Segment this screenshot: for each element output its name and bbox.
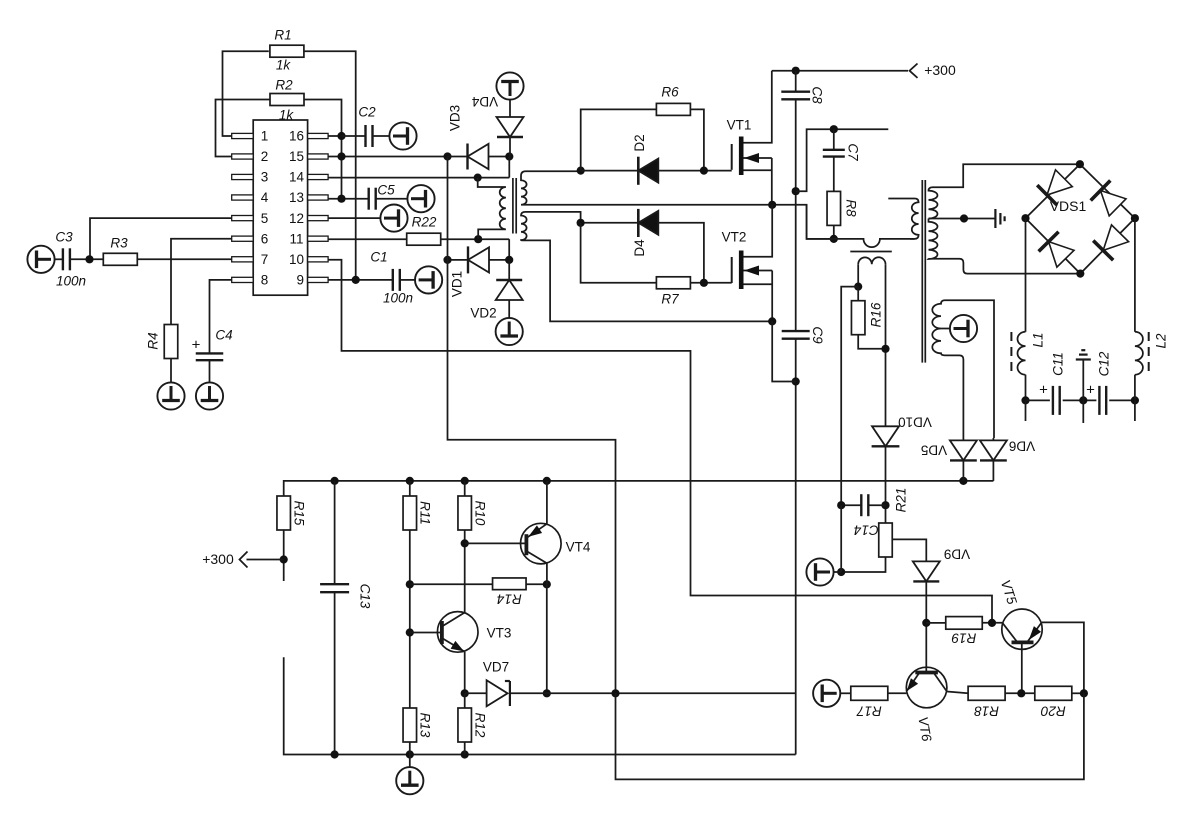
transistor VT4 emitter up — [546, 481, 548, 524]
svg-text:100n: 100n — [383, 291, 413, 306]
wire pin9 row — [328, 279, 393, 281]
wire VT6 collector to R18 — [947, 692, 968, 694]
node VT3 base junction — [406, 628, 414, 636]
wire junction down to pin14 line — [508, 157, 510, 178]
node output left — [1021, 396, 1029, 404]
diode VD9 — [913, 561, 940, 581]
svg-text:11: 11 — [289, 231, 303, 246]
wire bottom-left riser — [284, 657, 796, 754]
resistor R18 — [968, 686, 1005, 700]
node VD1 left junction — [443, 256, 451, 264]
wire junction to C2 — [342, 135, 366, 137]
wire ground to C3 — [54, 258, 63, 260]
svg-text:D2: D2 — [632, 134, 647, 151]
svg-text:C1: C1 — [370, 250, 387, 265]
transistor VT5 circle — [1002, 609, 1042, 649]
ground at R4 — [157, 382, 184, 409]
terminal +300 chevron left — [240, 552, 248, 568]
svg-text:R10: R10 — [472, 501, 487, 526]
resistor R8 — [827, 191, 841, 225]
transistor VT6 collector line — [934, 673, 947, 692]
ground at C1 — [415, 266, 442, 293]
capacitor C4 (electrolytic) — [196, 352, 224, 354]
stub output left — [1025, 400, 1027, 421]
wire T2 secondary right leg — [885, 264, 887, 427]
pin 7 stub — [232, 257, 254, 262]
wire C2 to ground — [372, 135, 389, 137]
node C8 top junction — [792, 67, 800, 75]
transistor VT1 gate line — [731, 144, 733, 170]
pin 3 stub — [232, 174, 254, 179]
diode VD7 (zener) — [487, 680, 508, 706]
transformer T3 secondary upper — [929, 164, 1080, 218]
diode VD7 zener bar — [509, 681, 511, 706]
diode VD1 cathode bar — [467, 246, 469, 273]
svg-text:VD6: VD6 — [1009, 438, 1035, 453]
wire R17 to VT6 — [888, 692, 907, 694]
ground at VD4 — [496, 72, 523, 99]
diode VD10 cathode bar — [872, 445, 900, 447]
wire VD4 to junction — [509, 137, 511, 157]
wire VD10 down — [885, 446, 887, 523]
transistor VT6 emitter line — [906, 673, 919, 692]
node C9 bottom junction — [792, 377, 800, 385]
node bridge left — [1021, 214, 1029, 222]
ground at bottom rail — [396, 767, 423, 794]
pin 11 stub — [308, 236, 329, 241]
svg-text:1k: 1k — [276, 58, 292, 73]
ground at C4 — [196, 382, 223, 409]
wire pin16 to junction — [328, 135, 341, 137]
wire C8 vertical — [795, 71, 797, 92]
wire bridge bottom-right side — [1080, 218, 1135, 273]
wire +300 block rail — [284, 481, 994, 496]
wire bridge top-right side — [1080, 164, 1135, 218]
node VT4 base junction — [461, 539, 469, 547]
svg-text:+: + — [1086, 381, 1095, 398]
node D2/R6/gate junction — [700, 167, 708, 175]
wire R18 to R20 — [1005, 692, 1035, 694]
inductor L1 core dashes — [1010, 332, 1012, 374]
wire C7 top — [833, 129, 835, 150]
diode VD3 — [468, 144, 489, 169]
transformer T3 feedback winding — [932, 300, 994, 438]
node VT2 source junction — [768, 317, 776, 325]
wire R4 to ground — [170, 359, 172, 383]
wire R7 left leg — [581, 223, 656, 283]
svg-text:R15: R15 — [291, 501, 306, 526]
node rail C13 — [331, 477, 339, 485]
wire R1 right to vertical bus x356 — [304, 51, 356, 280]
wire pin2 to R2 left — [216, 100, 271, 157]
pin 10 stub — [308, 257, 329, 262]
transformer T1 core — [512, 178, 514, 234]
svg-text:VT3: VT3 — [487, 626, 512, 641]
node bottom rail R12 — [461, 750, 469, 758]
transformer T2 core — [850, 251, 892, 253]
wire R6 right down — [691, 109, 704, 170]
wire C4 to ground — [209, 360, 211, 383]
wire pin15 column down — [448, 157, 616, 694]
transistor VT6 arrow — [907, 678, 918, 691]
wire midpoint down to R8 bottom — [807, 205, 834, 239]
ground at C5 — [407, 185, 434, 212]
resistor R19 — [946, 617, 983, 630]
wire pin14 row — [328, 177, 509, 179]
wire C8 down through midpoint to C9 — [795, 99, 797, 330]
svg-text:1k: 1k — [279, 108, 295, 123]
capacitor C1 — [392, 269, 394, 291]
svg-text:L1: L1 — [1031, 332, 1046, 347]
transistor VT2 arrow — [744, 266, 759, 276]
node R18/R20/VT5e junction — [1017, 689, 1025, 697]
pin 14 stub — [308, 174, 329, 179]
wire +300 stub — [247, 559, 284, 561]
svg-text:C9: C9 — [810, 326, 825, 344]
node rail R11 — [406, 477, 414, 485]
transistor VT1 channel bar — [739, 137, 744, 176]
transistor VT1 body arrow line — [744, 157, 772, 159]
svg-text:R17: R17 — [856, 703, 881, 718]
wire VD6 top — [992, 438, 994, 440]
node snubber top junction — [830, 125, 838, 133]
wire C14 right — [868, 504, 885, 506]
wire L2 to output rail — [1134, 375, 1136, 401]
wire R11 top — [409, 481, 411, 496]
transistor VT5 emitter diagonal — [1027, 622, 1042, 642]
transformer T3 secondary lower — [929, 219, 1081, 274]
wire pin5 left — [90, 218, 232, 259]
svg-text:R13: R13 — [417, 713, 432, 738]
svg-text:VD1: VD1 — [450, 271, 465, 297]
node C14 left junction — [837, 501, 845, 509]
capacitor C12 — [1098, 386, 1100, 415]
ground at VD2 — [496, 318, 523, 345]
wire R20 right — [1072, 692, 1084, 694]
bridge diode top-right — [1101, 191, 1127, 216]
node R16/VD10 junction — [881, 345, 889, 353]
pin 2 stub — [232, 154, 254, 159]
op-amp U1 (PWM controller IC body) — [253, 120, 307, 295]
svg-text:C4: C4 — [215, 328, 232, 343]
wire T2 primary with one-turn dip — [834, 239, 915, 247]
diode D4 (filled) — [638, 211, 658, 235]
transistor VT5 arrow — [1029, 626, 1041, 640]
wire R3 to pin7 — [137, 258, 231, 260]
pin 15 stub — [308, 154, 329, 159]
svg-text:15: 15 — [289, 149, 304, 164]
svg-text:C7: C7 — [845, 143, 860, 161]
capacitor C14 — [860, 494, 862, 516]
bridge diode bottom-right — [1103, 225, 1128, 251]
node VD3 left junction — [443, 152, 451, 160]
svg-text:VT4: VT4 — [566, 540, 591, 555]
transformer T1 secondary lower winding — [521, 212, 772, 322]
diode D4 cathode bar — [637, 209, 640, 237]
wire pin15 row — [328, 156, 447, 158]
node T1 upper secondary / R6 junction — [577, 167, 585, 175]
wire R15 bottom — [283, 530, 285, 581]
resistor R22 — [407, 233, 441, 245]
resistor R3 — [103, 253, 137, 265]
terminal +300 chevron — [910, 64, 918, 78]
wire T2 secondary left leg — [857, 264, 859, 286]
wire VT4 base — [465, 542, 527, 544]
wire VD5 down — [962, 460, 964, 481]
wire R14 right — [526, 583, 547, 585]
svg-text:C11: C11 — [1050, 352, 1065, 376]
ground at R17 — [813, 680, 840, 707]
node bridge bottom — [1076, 270, 1084, 278]
capacitor C13 top wire — [334, 481, 336, 584]
node D4 left junction — [577, 219, 585, 227]
svg-text:6: 6 — [261, 231, 269, 246]
ground at C14 — [806, 558, 833, 585]
node centre tap junction — [960, 214, 968, 222]
svg-text:12: 12 — [289, 211, 304, 226]
wire D4 line — [581, 222, 639, 224]
svg-text:VT2: VT2 — [722, 230, 747, 245]
svg-text:VD7: VD7 — [483, 660, 509, 675]
svg-text:13: 13 — [289, 190, 304, 205]
node C3/pin5 junction — [85, 255, 93, 263]
wire R14 line — [410, 583, 493, 585]
inductor L2 core dashes — [1148, 332, 1150, 374]
capacitor C2 — [364, 125, 366, 147]
wire +300 rail — [772, 70, 908, 72]
wire R2 right to bus x341 — [304, 100, 342, 199]
wire C5 to ground — [376, 198, 408, 200]
svg-text:R22: R22 — [412, 215, 437, 230]
svg-text:VD4: VD4 — [471, 94, 498, 109]
resistor R2 — [270, 94, 304, 106]
transistor VT3 arrow — [451, 641, 464, 652]
wire T2 left to C14 column — [841, 287, 858, 506]
transistor VT5 base bar — [1012, 641, 1034, 645]
wire pin10 to VT5 base run — [328, 260, 992, 623]
svg-text:R3: R3 — [110, 236, 128, 251]
wire bridge right node down — [1134, 218, 1136, 332]
wire bottom return — [616, 693, 1084, 779]
transistor VT3 base bar — [440, 621, 444, 644]
svg-text:C2: C2 — [358, 105, 376, 120]
wire R21 tap to VD9 — [892, 539, 926, 566]
wire VD9 node to R19 — [926, 622, 946, 624]
diode VD10 — [872, 426, 899, 446]
transistor VT6 circle — [906, 667, 947, 708]
pin 5 stub — [232, 216, 254, 221]
node bridge top — [1076, 160, 1084, 168]
svg-text:C5: C5 — [377, 183, 395, 198]
node VD9/R19 junction — [922, 619, 930, 627]
wire corner down to VD1/VD2 node — [508, 239, 510, 260]
wire pin1 to R1 left — [223, 51, 269, 136]
transistor VT4 emitter line — [528, 524, 547, 538]
transformer T1 secondary upper winding — [521, 171, 834, 239]
wire R13 bottom — [409, 742, 411, 755]
svg-text:R4: R4 — [146, 332, 161, 349]
wire pin13 to C5 — [328, 198, 369, 200]
wire ground stem — [409, 755, 411, 768]
wire pin8 to C4 — [210, 280, 232, 354]
stub output right — [1134, 400, 1136, 421]
wire bridge left node down — [1025, 218, 1027, 332]
svg-text:10: 10 — [289, 252, 304, 267]
pin 12 stub — [308, 216, 329, 221]
transistor VT6 base bar — [915, 671, 938, 675]
transistor VT4 arrow — [528, 525, 542, 536]
wire R7 right — [691, 282, 732, 284]
resistor R12 top wire — [464, 693, 466, 708]
node T1 primary top tap — [474, 174, 482, 182]
svg-text:R8: R8 — [843, 199, 858, 217]
node bottom rail R13 — [406, 750, 414, 758]
stub output mid — [1082, 400, 1084, 423]
wire output rail right — [1109, 399, 1135, 401]
wire VD9 down — [925, 581, 927, 672]
svg-text:VD9: VD9 — [944, 546, 970, 561]
resistor R4 — [164, 325, 178, 359]
svg-text:C3: C3 — [55, 230, 73, 245]
transistor VT1 drain — [744, 71, 772, 143]
node R8 bottom junction — [830, 235, 838, 243]
transformer T2 secondary — [858, 257, 885, 264]
svg-text:VDS1: VDS1 — [1050, 198, 1087, 214]
wire D4 right — [658, 223, 704, 283]
transistor VT4 collector line — [526, 551, 547, 563]
chassis ground at centre tap — [994, 209, 996, 228]
pin 1 stub — [232, 133, 254, 138]
capacitor C13 — [320, 583, 349, 585]
transistor VT3 emitter line — [442, 638, 465, 652]
node R7/D4/gate junction — [700, 279, 708, 287]
capacitor C11 — [1052, 386, 1054, 415]
diode VD4 cathode bar — [497, 136, 523, 138]
wire R19 right to VT5 — [982, 622, 1002, 624]
svg-text:5: 5 — [261, 211, 269, 226]
wire pin11 to R22 — [328, 238, 407, 240]
svg-text:2: 2 — [261, 149, 269, 164]
svg-text:16: 16 — [289, 129, 304, 144]
pin 4 stub — [232, 195, 254, 200]
svg-text:3: 3 — [261, 170, 269, 185]
resistor R15 — [277, 496, 291, 530]
svg-text:VD5: VD5 — [921, 442, 947, 457]
pin 9 stub — [308, 277, 329, 282]
node half-bridge midpoint — [768, 201, 776, 209]
svg-text:R16: R16 — [869, 302, 884, 327]
wire C3 to R3 — [70, 258, 104, 260]
wire bridge top-left side — [1026, 164, 1080, 218]
ground at C3 — [27, 246, 54, 273]
transistor VT5 collector diagonal — [1002, 623, 1017, 643]
svg-text:+300: +300 — [924, 62, 956, 78]
svg-text:9: 9 — [296, 273, 304, 288]
wire ground to R17 — [840, 692, 851, 694]
svg-text:14: 14 — [289, 170, 305, 185]
diode D2 (filled) — [638, 159, 658, 183]
wire R21 bottom to ground — [841, 557, 885, 572]
svg-text:C14: C14 — [854, 522, 879, 537]
node VD7 line x615 — [611, 689, 619, 697]
wire VD1 to VD2 — [489, 259, 509, 261]
svg-text:+300: +300 — [202, 551, 234, 567]
resistor R12 — [458, 708, 472, 742]
wire R16 top — [857, 287, 859, 301]
wire VD3 anode side — [448, 156, 468, 158]
transistor VT2 drain — [744, 205, 773, 257]
chassis ground above C11/C12 — [1076, 358, 1091, 360]
capacitor C3 — [62, 248, 64, 270]
wire output rail mid — [1063, 399, 1097, 401]
diode VD9 cathode bar — [913, 580, 939, 582]
svg-text:R1: R1 — [274, 28, 291, 43]
wire VD3 to VD4 junction — [489, 156, 510, 158]
wire VT1 source down to midpoint — [771, 158, 773, 205]
resistor R21 — [879, 523, 893, 557]
svg-text:VD10: VD10 — [898, 414, 932, 429]
node rail R10 — [461, 477, 469, 485]
wire VT4 collector down — [546, 563, 548, 584]
wire VD2 top — [508, 260, 510, 280]
svg-text:R11: R11 — [417, 501, 432, 525]
node bottom rail C13 — [331, 750, 339, 758]
transistor VT2 body arrow line — [744, 270, 773, 272]
wire output rail left — [1026, 399, 1050, 401]
inductor L2 — [1135, 332, 1143, 375]
capacitor C8 — [781, 90, 810, 92]
resistor R7 — [656, 277, 690, 289]
wire R10 bottom to VT3 collector — [464, 530, 466, 613]
inductor L1 — [1018, 332, 1026, 375]
node VD3/VD4 junction — [505, 152, 513, 160]
bridge diode top-left — [1047, 170, 1072, 195]
node VD7 anode junction — [461, 689, 469, 697]
resistor R13 — [403, 708, 417, 742]
pin 6 stub — [232, 236, 254, 241]
diode VD2 cathode bar — [496, 279, 522, 281]
capacitor C5 — [368, 188, 370, 210]
node R22/T1 junction — [474, 235, 482, 243]
wire R16 bottom — [858, 335, 885, 349]
svg-text:8: 8 — [261, 273, 269, 288]
transformer T3 primary — [888, 199, 918, 239]
diode VD3 cathode bar — [466, 144, 468, 170]
wire VT5 emitter right — [1042, 622, 1084, 693]
svg-text:L2: L2 — [1154, 333, 1169, 349]
wire L1 to output rail — [1025, 375, 1027, 401]
wire T3 centre tap — [929, 218, 996, 220]
svg-text:1: 1 — [261, 129, 269, 144]
node C14 right junction — [881, 501, 889, 509]
transistor VT2 source — [744, 283, 773, 285]
svg-text:C12: C12 — [1097, 351, 1112, 376]
svg-text:+: + — [192, 336, 201, 353]
svg-text:R14: R14 — [497, 591, 522, 606]
node VT4 collector junction — [543, 580, 551, 588]
diode VD5 cathode bar — [950, 459, 977, 461]
diode D2 cathode bar — [637, 157, 640, 185]
wire VD5 top — [962, 438, 964, 440]
wire pin12 to ground — [328, 217, 380, 219]
wire VD7 cathode line — [510, 692, 796, 694]
diode VD5 — [950, 440, 977, 460]
wire VT3 emitter down — [464, 652, 466, 694]
resistor R20 — [1035, 686, 1072, 700]
transistor VT3 base wire — [410, 632, 442, 634]
svg-text:R21: R21 — [894, 488, 909, 513]
svg-text:C13: C13 — [357, 584, 372, 609]
